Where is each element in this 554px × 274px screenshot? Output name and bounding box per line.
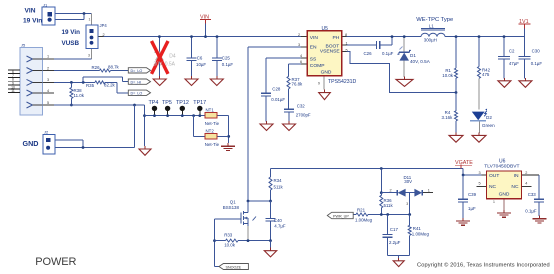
svg-text:4: 4 <box>525 182 527 186</box>
svg-text:TLV70450DBVT: TLV70450DBVT <box>484 164 519 170</box>
svg-text:D4: D4 <box>169 53 176 59</box>
svg-text:2: 2 <box>47 66 49 70</box>
svg-text:5: 5 <box>346 48 348 52</box>
svg-text:88.7k: 88.7k <box>108 65 120 70</box>
svg-text:VUSB: VUSB <box>62 40 80 47</box>
svg-text:2.2µF: 2.2µF <box>389 240 401 245</box>
svg-text:511k: 511k <box>384 203 394 208</box>
svg-text:R21: R21 <box>357 208 366 213</box>
svg-text:C40: C40 <box>274 218 283 223</box>
svg-text:R26: R26 <box>92 65 101 70</box>
svg-text:WE-TPC Type: WE-TPC Type <box>416 17 453 23</box>
svg-text:BSS138: BSS138 <box>223 205 240 210</box>
svg-text:GND: GND <box>321 70 332 76</box>
svg-text:C17: C17 <box>390 227 399 232</box>
svg-text:NT1: NT1 <box>206 107 215 112</box>
svg-text:PWR_UP: PWR_UP <box>333 214 349 218</box>
svg-text:3: 3 <box>298 43 300 47</box>
svg-text:10.0k: 10.0k <box>442 73 454 78</box>
svg-text:4.7µF: 4.7µF <box>274 224 286 229</box>
svg-text:IN: IN <box>514 173 519 179</box>
svg-text:L1: L1 <box>429 23 434 28</box>
svg-text:TP4: TP4 <box>149 100 159 106</box>
svg-text:10.0k: 10.0k <box>224 243 236 248</box>
svg-text:1: 1 <box>428 189 430 193</box>
svg-text:0.1µF: 0.1µF <box>382 51 394 56</box>
svg-text:5: 5 <box>47 101 49 105</box>
svg-text:10µF: 10µF <box>196 62 206 67</box>
svg-text:D2: D2 <box>486 115 492 120</box>
svg-text:C33: C33 <box>528 192 537 197</box>
svg-text:475: 475 <box>482 72 490 77</box>
svg-text:1.00Meg: 1.00Meg <box>355 217 373 222</box>
svg-text:19 Vin: 19 Vin <box>23 18 42 25</box>
svg-text:JP4: JP4 <box>100 23 108 28</box>
svg-text:6: 6 <box>300 60 302 64</box>
svg-text:VIN: VIN <box>25 7 36 14</box>
svg-text:EN: EN <box>310 44 317 50</box>
svg-text:PH: PH <box>333 35 340 41</box>
svg-text:47µF: 47µF <box>509 61 519 66</box>
svg-text:82.2k: 82.2k <box>104 82 116 87</box>
svg-text:TP5: TP5 <box>162 100 172 106</box>
svg-text:C26: C26 <box>364 51 373 56</box>
svg-text:Net-Tie: Net-Tie <box>205 142 220 147</box>
svg-text:C6: C6 <box>197 56 203 61</box>
svg-text:TP12: TP12 <box>176 100 189 106</box>
svg-text:TP17: TP17 <box>193 100 206 106</box>
svg-text:R35: R35 <box>86 83 95 88</box>
svg-text:4: 4 <box>47 89 49 93</box>
svg-text:2700pF: 2700pF <box>296 113 311 118</box>
svg-text:1.00Meg: 1.00Meg <box>412 231 430 236</box>
svg-text:11.0k: 11.0k <box>74 93 85 98</box>
svg-text:C39: C39 <box>468 192 477 197</box>
svg-text:Net-Tie: Net-Tie <box>205 121 220 126</box>
svg-text:4: 4 <box>300 54 302 58</box>
svg-text:8: 8 <box>345 33 347 37</box>
svg-text:NC: NC <box>489 184 497 190</box>
svg-text:1: 1 <box>346 42 348 46</box>
svg-text:R33: R33 <box>224 233 233 238</box>
svg-text:1: 1 <box>47 54 49 58</box>
svg-text:3: 3 <box>47 78 49 82</box>
svg-text:9: 9 <box>318 82 320 86</box>
svg-text:2: 2 <box>525 171 527 175</box>
svg-text:VIN: VIN <box>310 35 319 41</box>
svg-text:30V, 0.5A: 30V, 0.5A <box>154 62 176 68</box>
svg-text:GND: GND <box>499 191 510 197</box>
svg-text:19 Vin: 19 Vin <box>62 29 81 36</box>
svg-text:3: 3 <box>479 171 481 175</box>
svg-text:11: 11 <box>11 89 15 93</box>
svg-text:3: 3 <box>406 202 408 206</box>
svg-text:3.16k: 3.16k <box>442 115 454 120</box>
svg-text:COMP: COMP <box>310 63 325 69</box>
svg-text:D=_HI: D=_HI <box>131 80 142 84</box>
svg-text:SS: SS <box>310 56 317 62</box>
svg-text:C30: C30 <box>532 49 541 54</box>
svg-text:GND: GND <box>23 139 39 148</box>
svg-text:511k: 511k <box>274 184 284 189</box>
svg-text:30V: 30V <box>404 179 412 184</box>
svg-text:POWER: POWER <box>35 256 76 268</box>
svg-text:Copyright © 2016, Texas Instru: Copyright © 2016, Texas Instruments Inco… <box>417 261 550 268</box>
svg-text:U5: U5 <box>322 26 329 32</box>
svg-text:40V, 0.5A: 40V, 0.5A <box>410 59 431 64</box>
svg-text:TPS54231D: TPS54231D <box>328 79 357 85</box>
svg-text:NT2: NT2 <box>206 129 215 134</box>
svg-text:0.1µF: 0.1µF <box>525 208 537 213</box>
svg-text:OUT: OUT <box>489 173 499 179</box>
svg-text:D=_LO: D=_LO <box>131 91 143 95</box>
svg-text:VSENSE: VSENSE <box>320 49 341 55</box>
svg-text:D1: D1 <box>410 53 416 58</box>
svg-text:1: 1 <box>89 18 91 22</box>
svg-text:2: 2 <box>298 33 300 37</box>
svg-text:C28: C28 <box>272 86 281 91</box>
svg-text:C25: C25 <box>222 56 231 61</box>
svg-text:3: 3 <box>88 54 90 58</box>
svg-text:1: 1 <box>493 200 495 204</box>
svg-text:C2: C2 <box>509 49 515 54</box>
svg-text:D=_LO: D=_LO <box>131 69 143 73</box>
svg-text:2: 2 <box>103 33 105 37</box>
svg-text:R34: R34 <box>274 178 283 183</box>
svg-text:R41: R41 <box>413 226 422 231</box>
svg-text:5: 5 <box>479 182 481 186</box>
svg-text:SNOOZE: SNOOZE <box>226 265 242 269</box>
svg-text:76.8k: 76.8k <box>292 82 304 87</box>
svg-text:NC: NC <box>511 184 519 190</box>
svg-text:0.1µF: 0.1µF <box>531 61 543 66</box>
svg-text:Green: Green <box>482 123 495 128</box>
svg-text:0.1µF: 0.1µF <box>222 62 234 67</box>
svg-text:Q1: Q1 <box>230 199 236 204</box>
svg-text:300µH: 300µH <box>424 38 437 43</box>
svg-text:2: 2 <box>390 189 392 193</box>
svg-text:0.01µF: 0.01µF <box>271 97 285 102</box>
svg-text:1µF: 1µF <box>468 206 476 211</box>
svg-text:C32: C32 <box>297 104 306 109</box>
